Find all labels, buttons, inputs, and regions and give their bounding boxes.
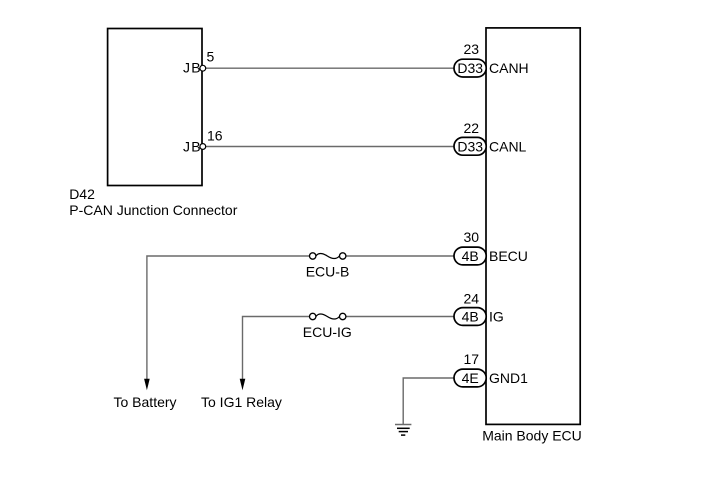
svg-text:To IG1 Relay: To IG1 Relay — [201, 394, 282, 410]
svg-text:5: 5 — [207, 48, 215, 64]
svg-text:D42: D42 — [69, 186, 95, 202]
svg-text:GND1: GND1 — [489, 370, 528, 386]
svg-text:JB: JB — [183, 138, 202, 154]
svg-text:D33: D33 — [457, 139, 483, 155]
svg-text:4B: 4B — [462, 309, 479, 325]
svg-text:16: 16 — [207, 127, 223, 143]
svg-text:D33: D33 — [457, 60, 483, 76]
svg-text:30: 30 — [464, 229, 480, 245]
svg-text:24: 24 — [464, 290, 480, 306]
svg-text:ECU-IG: ECU-IG — [303, 324, 352, 340]
svg-text:17: 17 — [464, 351, 480, 367]
svg-text:BECU: BECU — [489, 248, 528, 264]
svg-text:22: 22 — [464, 120, 480, 136]
svg-text:IG: IG — [489, 309, 504, 325]
svg-text:JB: JB — [183, 60, 202, 76]
svg-text:CANH: CANH — [489, 60, 529, 76]
svg-text:4E: 4E — [462, 370, 479, 386]
svg-text:4B: 4B — [462, 248, 479, 264]
svg-text:23: 23 — [464, 41, 480, 57]
svg-text:CANL: CANL — [489, 139, 527, 155]
svg-text:Main Body ECU: Main Body ECU — [482, 427, 582, 443]
svg-text:ECU-B: ECU-B — [306, 263, 350, 279]
svg-text:P-CAN Junction Connector: P-CAN Junction Connector — [69, 202, 237, 218]
svg-text:To Battery: To Battery — [114, 394, 177, 410]
